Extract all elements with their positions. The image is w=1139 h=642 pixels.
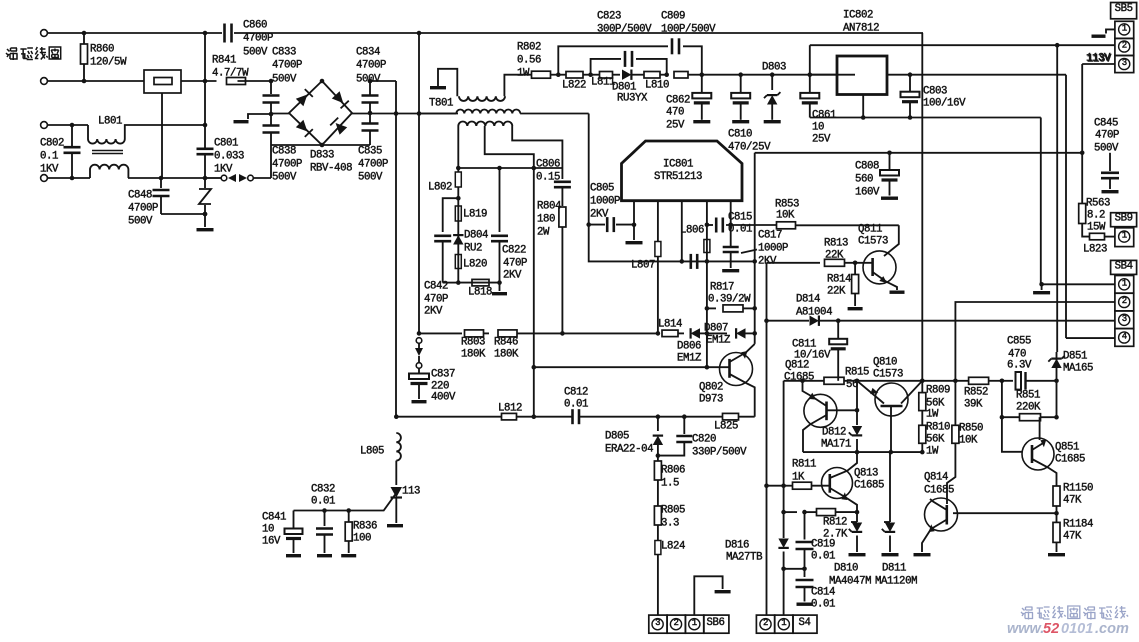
svg-text:R803: R803 xyxy=(461,337,485,349)
svg-text:L819: L819 xyxy=(463,209,487,221)
svg-text:3: 3 xyxy=(1122,314,1127,324)
svg-text:10: 10 xyxy=(812,122,824,134)
svg-text:4700P: 4700P xyxy=(272,159,302,171)
svg-text:L806: L806 xyxy=(680,225,704,237)
svg-text:C833: C833 xyxy=(272,47,296,59)
svg-text:C801: C801 xyxy=(214,138,238,150)
svg-text:C835: C835 xyxy=(358,146,382,158)
svg-text:0.1: 0.1 xyxy=(40,151,58,163)
svg-text:C817: C817 xyxy=(758,230,782,242)
svg-text:16V: 16V xyxy=(262,536,281,548)
svg-text:R805: R805 xyxy=(661,505,685,517)
svg-text:100P/500V: 100P/500V xyxy=(661,24,716,36)
svg-text:C1573: C1573 xyxy=(873,369,903,381)
svg-text:470P: 470P xyxy=(424,294,448,306)
svg-text:T801: T801 xyxy=(429,98,453,110)
svg-text:MA171: MA171 xyxy=(821,439,851,451)
svg-text:C815: C815 xyxy=(728,212,752,224)
svg-text:0.01: 0.01 xyxy=(811,551,835,563)
svg-text:R836: R836 xyxy=(353,521,377,533)
svg-text:C842: C842 xyxy=(424,281,448,293)
svg-text:500V: 500V xyxy=(243,47,268,59)
svg-text:4700P: 4700P xyxy=(243,33,273,45)
svg-text:220K: 220K xyxy=(1016,402,1041,414)
svg-text:470P: 470P xyxy=(1095,130,1119,142)
svg-text:L807: L807 xyxy=(631,260,655,272)
svg-text:113V: 113V xyxy=(1086,53,1111,65)
svg-text:L810: L810 xyxy=(645,80,669,92)
svg-text:D973: D973 xyxy=(699,394,723,406)
svg-text:470P: 470P xyxy=(503,258,527,270)
svg-text:330P/500V: 330P/500V xyxy=(692,447,747,459)
svg-text:STR51213: STR51213 xyxy=(654,171,702,183)
svg-text:C845: C845 xyxy=(1094,118,1118,130)
svg-text:47K: 47K xyxy=(1063,495,1082,507)
svg-text:SB4: SB4 xyxy=(1115,260,1133,272)
svg-text:R811: R811 xyxy=(792,459,816,471)
svg-text:0.01: 0.01 xyxy=(564,399,588,411)
svg-text:L802: L802 xyxy=(428,182,452,194)
svg-text:L825: L825 xyxy=(714,421,738,433)
svg-text:470: 470 xyxy=(666,107,684,119)
svg-text:4700P: 4700P xyxy=(358,159,388,171)
svg-text:Q802: Q802 xyxy=(699,382,723,394)
svg-text:C802: C802 xyxy=(40,138,64,150)
svg-text:Q851: Q851 xyxy=(1055,442,1079,454)
svg-text:52: 52 xyxy=(1043,621,1059,637)
svg-text:1: 1 xyxy=(1122,231,1127,241)
svg-text:500V: 500V xyxy=(358,172,383,184)
svg-text:C810: C810 xyxy=(728,129,752,141)
svg-text:L818: L818 xyxy=(468,287,492,299)
svg-text:100: 100 xyxy=(353,533,371,545)
svg-text:180: 180 xyxy=(537,214,555,226)
svg-text:500V: 500V xyxy=(272,172,297,184)
svg-text:RU2: RU2 xyxy=(464,243,482,255)
svg-text:C841: C841 xyxy=(262,512,286,524)
svg-text:MA4047M: MA4047M xyxy=(829,576,871,588)
svg-text:2KV: 2KV xyxy=(503,270,522,282)
svg-text:100/16V: 100/16V xyxy=(923,98,966,110)
svg-text:IC802: IC802 xyxy=(843,10,873,22)
svg-text:C805: C805 xyxy=(590,183,614,195)
svg-text:R1184: R1184 xyxy=(1063,519,1093,531)
svg-text:L805: L805 xyxy=(360,446,384,458)
svg-text:Q811: Q811 xyxy=(858,224,882,236)
svg-text:D804: D804 xyxy=(464,230,488,242)
svg-text:4.7/7W: 4.7/7W xyxy=(212,68,249,80)
svg-text:D812: D812 xyxy=(822,427,846,439)
svg-text:L814: L814 xyxy=(658,319,682,331)
svg-text:56K: 56K xyxy=(926,434,945,446)
svg-text:S4: S4 xyxy=(798,617,810,629)
svg-text:500V: 500V xyxy=(128,216,153,228)
svg-text:D803: D803 xyxy=(762,62,786,74)
svg-text:L812: L812 xyxy=(498,403,522,415)
svg-text:Q813: Q813 xyxy=(854,468,878,480)
svg-text:R1150: R1150 xyxy=(1063,483,1093,495)
svg-text:2KV: 2KV xyxy=(424,306,443,318)
svg-text:3: 3 xyxy=(655,618,660,628)
svg-text:MA165: MA165 xyxy=(1063,363,1093,375)
svg-text:22K: 22K xyxy=(825,250,844,262)
svg-text:2: 2 xyxy=(763,618,768,628)
svg-text:4700P: 4700P xyxy=(272,60,302,72)
svg-text:500V: 500V xyxy=(1094,143,1119,155)
svg-text:C803: C803 xyxy=(923,86,947,98)
svg-text:400V: 400V xyxy=(431,392,456,404)
svg-text:L824: L824 xyxy=(661,541,685,553)
svg-text:560: 560 xyxy=(855,174,873,186)
svg-text:D816: D816 xyxy=(725,540,749,552)
svg-text:15W: 15W xyxy=(1087,222,1106,234)
svg-text:L823: L823 xyxy=(1083,244,1107,256)
svg-text:1KV: 1KV xyxy=(40,164,59,176)
svg-text:C820: C820 xyxy=(692,434,716,446)
svg-text:R810: R810 xyxy=(926,422,950,434)
svg-text:C837: C837 xyxy=(431,369,455,381)
svg-text:C808: C808 xyxy=(855,161,879,173)
svg-text:1W: 1W xyxy=(517,68,530,80)
svg-text:1KV: 1KV xyxy=(214,164,233,176)
svg-text:ERA22-04: ERA22-04 xyxy=(605,444,653,456)
svg-text:R846: R846 xyxy=(494,337,518,349)
svg-text:0.39/2W: 0.39/2W xyxy=(708,294,751,306)
svg-text:113: 113 xyxy=(402,486,420,498)
svg-text:1000P: 1000P xyxy=(758,243,788,255)
svg-text:RU3YX: RU3YX xyxy=(617,93,648,105)
svg-text:120/5W: 120/5W xyxy=(90,57,127,69)
svg-text:C809: C809 xyxy=(661,11,685,23)
svg-text:R806: R806 xyxy=(661,465,685,477)
svg-text:4700P: 4700P xyxy=(128,203,158,215)
svg-text:C823: C823 xyxy=(597,11,621,23)
svg-text:D806: D806 xyxy=(677,341,701,353)
svg-text:300P/500V: 300P/500V xyxy=(597,24,652,36)
svg-text:D811: D811 xyxy=(882,563,906,575)
svg-text:10K: 10K xyxy=(959,435,978,447)
svg-text:6.3V: 6.3V xyxy=(1007,360,1032,372)
svg-text:D810: D810 xyxy=(834,563,858,575)
svg-text:1W: 1W xyxy=(926,409,939,421)
svg-text:D807: D807 xyxy=(704,323,728,335)
svg-text:R802: R802 xyxy=(517,42,541,54)
svg-text:2: 2 xyxy=(673,618,678,628)
svg-text:Q814: Q814 xyxy=(924,472,948,484)
svg-text:2KV: 2KV xyxy=(758,256,777,268)
svg-text:1W: 1W xyxy=(926,446,939,458)
svg-text:C1685: C1685 xyxy=(1055,454,1085,466)
svg-text:.com: .com xyxy=(1095,621,1129,637)
svg-text:0.01: 0.01 xyxy=(811,599,835,611)
svg-text:10: 10 xyxy=(262,524,274,536)
svg-text:4700P: 4700P xyxy=(356,60,386,72)
svg-text:L820: L820 xyxy=(463,259,487,271)
svg-text:1: 1 xyxy=(1122,278,1127,288)
svg-text:L822: L822 xyxy=(562,80,586,92)
svg-text:R852: R852 xyxy=(964,387,988,399)
svg-text:160V: 160V xyxy=(855,187,880,199)
svg-text:C1573: C1573 xyxy=(858,236,888,248)
svg-text:C812: C812 xyxy=(564,387,588,399)
svg-text:Q812: Q812 xyxy=(785,360,809,372)
svg-text:D851: D851 xyxy=(1063,351,1087,363)
svg-text:1.5: 1.5 xyxy=(661,478,679,490)
svg-text:0.01: 0.01 xyxy=(728,224,752,236)
svg-text:AN7812: AN7812 xyxy=(843,23,879,35)
svg-text:R860: R860 xyxy=(90,44,114,56)
svg-text:C848: C848 xyxy=(128,190,152,202)
svg-text:C1685: C1685 xyxy=(924,485,954,497)
svg-text:56: 56 xyxy=(846,379,858,391)
svg-text:470/25V: 470/25V xyxy=(728,142,771,154)
svg-text:1: 1 xyxy=(1122,23,1127,33)
svg-text:0101: 0101 xyxy=(1061,621,1093,637)
svg-text:C832: C832 xyxy=(311,484,335,496)
svg-text:R813: R813 xyxy=(824,238,848,250)
svg-text:SB9: SB9 xyxy=(1115,213,1133,225)
svg-text:180K: 180K xyxy=(461,349,486,361)
svg-text:A81004: A81004 xyxy=(796,307,832,319)
svg-text:R812: R812 xyxy=(823,517,847,529)
svg-text:1000P: 1000P xyxy=(590,196,620,208)
svg-text:MA1120M: MA1120M xyxy=(875,576,917,588)
svg-text:C838: C838 xyxy=(272,146,296,158)
svg-text:SB5: SB5 xyxy=(1115,3,1133,15)
svg-text:1: 1 xyxy=(692,618,697,628)
svg-text:0.033: 0.033 xyxy=(214,151,244,163)
svg-text:EM1Z: EM1Z xyxy=(677,353,702,365)
svg-text:SB6: SB6 xyxy=(706,617,724,629)
svg-text:C860: C860 xyxy=(243,20,267,32)
svg-text:4: 4 xyxy=(1122,332,1127,342)
svg-text:500V: 500V xyxy=(272,74,297,86)
svg-text:R841: R841 xyxy=(212,55,236,67)
svg-text:R563: R563 xyxy=(1086,198,1110,210)
svg-text:180K: 180K xyxy=(494,349,519,361)
svg-text:C814: C814 xyxy=(811,587,835,599)
svg-text:R804: R804 xyxy=(537,201,561,213)
svg-text:D814: D814 xyxy=(796,294,820,306)
svg-text:3.3: 3.3 xyxy=(661,518,679,530)
svg-text:8.2: 8.2 xyxy=(1087,210,1105,222)
svg-text:MA27TB: MA27TB xyxy=(726,552,763,564)
svg-text:1K: 1K xyxy=(792,472,805,484)
svg-text:22K: 22K xyxy=(827,286,846,298)
svg-text:C834: C834 xyxy=(356,47,380,59)
svg-text:EM1Z: EM1Z xyxy=(706,335,731,347)
svg-text:C1685: C1685 xyxy=(784,372,814,384)
svg-text:2W: 2W xyxy=(537,227,550,239)
svg-text:2KV: 2KV xyxy=(590,209,609,221)
svg-text:L801: L801 xyxy=(98,116,122,128)
svg-text:500V: 500V xyxy=(356,74,381,86)
svg-text:C861: C861 xyxy=(812,110,836,122)
svg-text:R814: R814 xyxy=(827,274,851,286)
svg-text:25V: 25V xyxy=(812,134,831,146)
svg-text:R817: R817 xyxy=(710,282,734,294)
svg-text:39K: 39K xyxy=(964,399,983,411)
svg-text:D805: D805 xyxy=(605,431,629,443)
svg-text:1: 1 xyxy=(781,618,786,628)
svg-text:R809: R809 xyxy=(926,385,950,397)
svg-text:C862: C862 xyxy=(666,95,690,107)
svg-text:RBV-408: RBV-408 xyxy=(310,163,352,175)
svg-text:IC801: IC801 xyxy=(663,159,693,171)
svg-text:25V: 25V xyxy=(666,120,685,132)
svg-text:C819: C819 xyxy=(811,539,835,551)
svg-text:R850: R850 xyxy=(959,423,983,435)
svg-text:C806: C806 xyxy=(536,159,560,171)
svg-text:www.: www. xyxy=(1007,621,1044,637)
svg-text:2: 2 xyxy=(1122,296,1127,306)
svg-text:0.56: 0.56 xyxy=(517,55,541,67)
svg-text:C1685: C1685 xyxy=(854,480,884,492)
svg-text:3: 3 xyxy=(1122,58,1127,68)
svg-text:R851: R851 xyxy=(1016,390,1040,402)
svg-text:R815: R815 xyxy=(845,367,869,379)
svg-text:D833: D833 xyxy=(310,150,334,162)
svg-text:C822: C822 xyxy=(502,245,526,257)
svg-text:C855: C855 xyxy=(1007,336,1031,348)
svg-text:0.15: 0.15 xyxy=(536,172,560,184)
svg-text:2: 2 xyxy=(1122,41,1127,51)
svg-text:Q810: Q810 xyxy=(873,357,897,369)
svg-text:10K: 10K xyxy=(776,210,795,222)
svg-text:0.01: 0.01 xyxy=(311,496,335,508)
svg-text:47K: 47K xyxy=(1063,531,1082,543)
